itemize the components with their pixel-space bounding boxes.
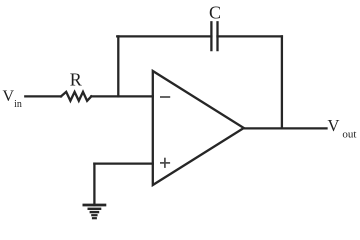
ground: [83, 205, 107, 218]
wire feedback right vertical: [281, 36, 283, 128]
svg-text:Vout: Vout: [328, 116, 357, 140]
pin plus (non-inverting input): [160, 158, 170, 168]
wire non-inverting input: [94, 162, 152, 164]
wire resistor to inverting input: [91, 95, 153, 97]
resistor R: [61, 92, 91, 101]
wire feedback left vertical (node A junction): [117, 36, 119, 96]
wire top feedback left segment: [117, 35, 211, 37]
wire Vin to resistor: [25, 95, 61, 97]
wire output: [244, 127, 327, 129]
svg-text:R: R: [70, 70, 82, 90]
pin minus (inverting input): [160, 96, 170, 98]
svg-text:Vin: Vin: [3, 88, 22, 110]
capacitor C: [211, 22, 217, 50]
svg-text:C: C: [209, 3, 221, 23]
wire ground drop: [93, 164, 95, 205]
wire top feedback right segment: [218, 35, 282, 37]
op-amp U1: [153, 71, 244, 185]
